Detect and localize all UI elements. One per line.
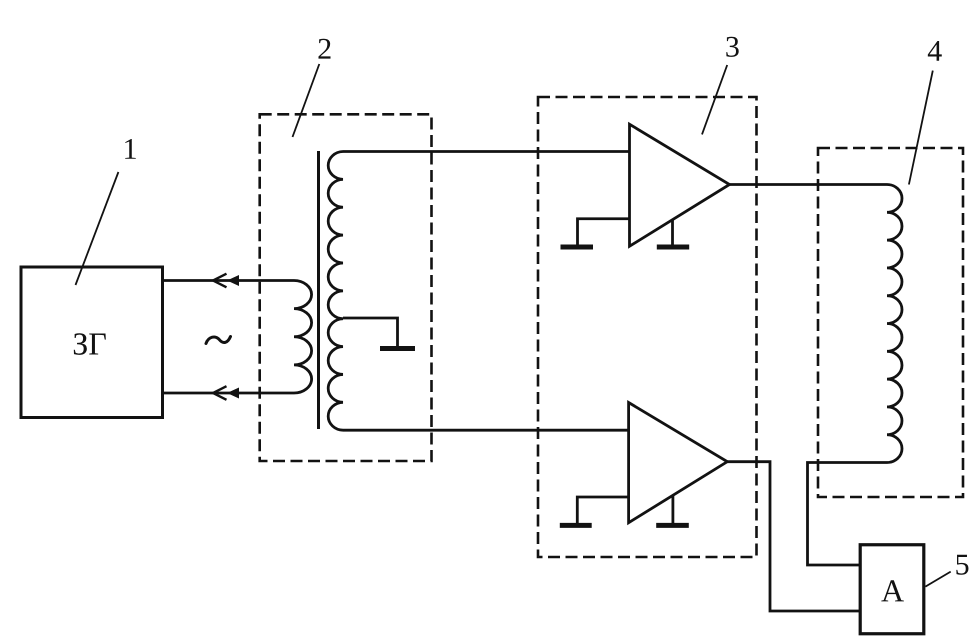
transformer core <box>317 151 320 429</box>
ground wire (top amp right) <box>671 220 674 245</box>
tap wire <box>343 318 398 346</box>
arrow chevron on top wire <box>213 274 227 288</box>
callout line 4 <box>909 71 933 185</box>
wire: secondary bottom to amplifier input <box>343 429 629 432</box>
ground wire (bottom amp right) <box>672 496 675 524</box>
label ЗГ <box>74 333 106 355</box>
wire: secondary top to amplifier input <box>343 150 630 153</box>
arrow chevron on bottom wire <box>213 386 227 400</box>
ground bar (top amp left) <box>561 245 594 250</box>
callout label 5 <box>956 555 968 575</box>
ground bar (bottom amp right) <box>656 523 689 528</box>
inductor coil L1 (block 4) <box>887 185 902 463</box>
callout line 1 <box>76 172 119 285</box>
secondary winding of transformer T1 <box>328 152 343 431</box>
callout line 5 <box>925 572 950 587</box>
amplifier top <box>630 124 730 246</box>
generator block 1 (ЗГ) <box>21 267 163 418</box>
callout line 2 <box>293 64 320 137</box>
callout label 1 <box>125 139 136 159</box>
indicator block 5 (A) <box>860 545 924 634</box>
ground bar (bottom amp left) <box>560 523 592 528</box>
wire: primary to generator (bottom) <box>163 392 295 395</box>
callout label 2 <box>318 39 330 59</box>
amplifier bottom <box>629 403 728 523</box>
callout line 3 <box>702 65 727 134</box>
primary winding of transformer T1 <box>294 281 312 393</box>
arrow head on top wire <box>227 275 239 286</box>
arrow head on bottom wire <box>227 388 239 399</box>
dashed enclosure 4 <box>818 148 963 497</box>
callout label 3 <box>726 37 738 57</box>
callout label 4 <box>928 41 942 61</box>
dashed enclosure 2 <box>260 114 432 461</box>
dashed enclosure 3 <box>538 97 757 557</box>
wire: top amplifier output to coil <box>730 183 888 186</box>
wire: coil bottom to block 5 <box>808 463 888 566</box>
ground bar (tap) <box>380 346 415 351</box>
label A <box>881 580 904 601</box>
AC sine symbol ~ <box>206 337 231 344</box>
ground bar (top amp right) <box>657 245 689 250</box>
wire bottom amp output to block 5 <box>727 462 860 611</box>
wire: generator to primary (top) <box>163 279 295 282</box>
ground wire (bottom amp left) <box>577 497 628 523</box>
ground wire (top amp left) <box>578 219 630 245</box>
